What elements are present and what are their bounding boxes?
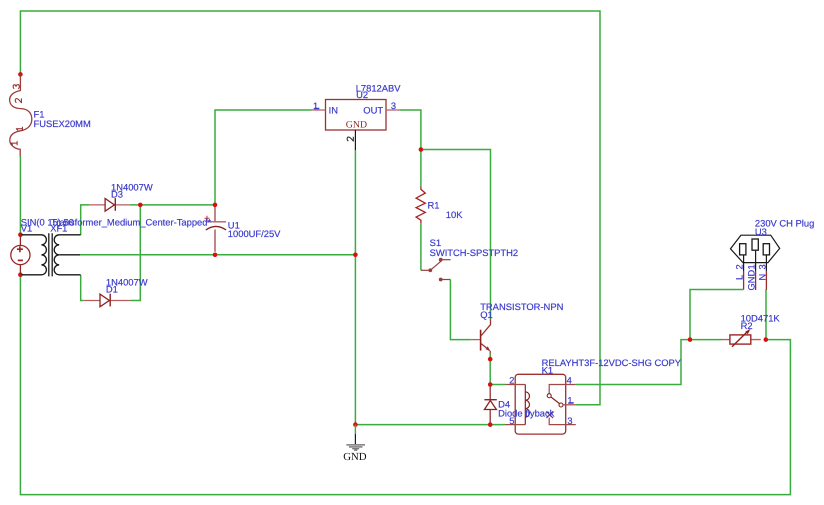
- secondary winding: [54, 235, 80, 275]
- node varistor right junction: [764, 337, 769, 342]
- svg-text:D3: D3: [111, 189, 123, 200]
- wire center tap to U2 GND net: [80, 254, 355, 256]
- varistor R2: [721, 329, 761, 347]
- svg-text:Diode flyback: Diode flyback: [498, 408, 555, 419]
- coil: [525, 385, 529, 425]
- pin blade L: [740, 244, 746, 255]
- svg-text:U2: U2: [356, 89, 368, 100]
- svg-text:1000UF/25V: 1000UF/25V: [228, 228, 281, 239]
- svg-text:5: 5: [509, 416, 514, 426]
- transistor Q1: [471, 320, 491, 354]
- wire D3 cathode to cap top to U2 IN: [130, 110, 312, 205]
- relay pin numbers: [509, 375, 573, 425]
- diode D1: [83, 294, 130, 307]
- svg-text:R1: R1: [428, 200, 440, 211]
- primary winding: [22, 235, 47, 275]
- svg-text:U3: U3: [755, 226, 767, 237]
- wire D3 junction down to D1 cathode: [131, 205, 141, 301]
- svg-text:GND: GND: [746, 270, 756, 291]
- svg-text:GND: GND: [346, 119, 367, 130]
- svg-text:Transformer_Medium_Center-Tapp: Transformer_Medium_Center-Tapped*: [51, 217, 211, 228]
- svg-text:XF1: XF1: [50, 223, 67, 234]
- svg-text:K1: K1: [542, 365, 553, 376]
- node cap bottom junction: [213, 253, 218, 258]
- node V1 plus terminal: [18, 232, 23, 237]
- pin blade GND: [752, 239, 758, 250]
- svg-text:R2: R2: [741, 320, 753, 331]
- plug U3 pin leads red: [744, 271, 767, 290]
- node varistor left junction: [688, 337, 693, 342]
- wire U2 OUT to junction, down to R1: [399, 110, 421, 186]
- svg-text:V1: V1: [21, 223, 32, 234]
- resistor R1: [416, 186, 425, 223]
- svg-text:2: 2: [735, 264, 745, 269]
- hexagon body: [731, 235, 780, 262]
- svg-text:L: L: [735, 275, 745, 280]
- svg-text:SWITCH-SPSTPTH2: SWITCH-SPSTPTH2: [430, 247, 519, 258]
- svg-text:1: 1: [746, 264, 756, 269]
- svg-text:GND: GND: [343, 451, 367, 463]
- pin 2 stub: [505, 384, 525, 386]
- svg-text:3: 3: [758, 264, 768, 269]
- pin blade N: [763, 244, 769, 255]
- node center tap / U2 gnd junction: [353, 253, 358, 258]
- fuse F1 pin numbers: [11, 85, 22, 146]
- node GND symbol junction: [353, 422, 358, 427]
- wire emitter net to relay pin2: [490, 384, 505, 386]
- svg-text:1: 1: [567, 396, 572, 406]
- wire fuse-top to top rail to relay pin1: [20, 11, 600, 405]
- svg-text:D1: D1: [106, 284, 118, 295]
- svg-text:Q1: Q1: [480, 309, 493, 320]
- wire plug L pin left and down to varistor left junction: [690, 290, 744, 340]
- wire relay pin4 to varistor left junction: [576, 340, 690, 385]
- U2 pin2 stub: [354, 130, 356, 150]
- svg-text:2: 2: [509, 375, 514, 385]
- capacitor U1: [205, 207, 227, 252]
- node D4 bottom junction: [488, 422, 493, 427]
- svg-text:4: 4: [567, 375, 572, 385]
- fuse F1: [10, 74, 32, 156]
- svg-text:3: 3: [567, 416, 572, 426]
- wire transformer secondary bottom to D1 anode: [81, 275, 84, 301]
- wire transformer secondary top to D3: [81, 205, 90, 235]
- node relay pin2 junction: [488, 382, 493, 387]
- pin 3 stub and NC mark: [549, 418, 576, 425]
- ground symbol GND: [343, 425, 367, 463]
- wire fuse bottom to V1 top: [19, 156, 21, 235]
- wire emitter down to GND net: [489, 354, 491, 385]
- pin leads black: [744, 250, 767, 271]
- diode D3: [89, 198, 130, 211]
- svg-text:3: 3: [391, 101, 396, 111]
- node U2 out junction: [419, 147, 424, 152]
- U2 pin 1 digit foot serif: [314, 108, 319, 110]
- wire junction right to transistor collector: [421, 150, 491, 320]
- regulator U2: [312, 100, 400, 151]
- svg-text:10K: 10K: [446, 209, 463, 220]
- wire plug N pin to varistor right junction: [765, 290, 767, 340]
- node fuse top junction: [18, 72, 23, 77]
- plug pin numbers (rotated): [735, 264, 768, 290]
- pin 4 stub and contact arm: [549, 385, 576, 394]
- node emitter junction: [488, 357, 493, 362]
- svg-text:RELAYHT3F-12VDC-SHG COPY: RELAYHT3F-12VDC-SHG COPY: [542, 357, 682, 368]
- diode D4 flyback: [484, 386, 496, 424]
- node cap top junction: [213, 203, 218, 208]
- core lines: [49, 233, 52, 276]
- pin 5 stub: [505, 424, 525, 426]
- svg-text:N: N: [758, 274, 768, 281]
- node D3 output junction: [138, 203, 143, 208]
- transformer XF1: [22, 233, 81, 276]
- switch S1: [421, 258, 451, 280]
- svg-text:1: 1: [313, 101, 318, 111]
- center tap: [59, 254, 80, 256]
- svg-text:IN: IN: [329, 105, 338, 116]
- wire GND net horizontal to relay pin5: [355, 424, 505, 426]
- wire R1 bottom to switch: [420, 223, 422, 270]
- wire switch lower contact to transistor base: [450, 280, 470, 340]
- plug U3: [731, 235, 780, 271]
- svg-text:OUT: OUT: [363, 105, 383, 116]
- U2 pin 2 number (rotated): [347, 137, 353, 141]
- source V1: [11, 235, 30, 275]
- wire U2 pin2 down to center tap and down to GND symbol junction: [354, 150, 356, 425]
- pin 1 stub: [563, 404, 576, 406]
- node V1 minus terminal: [18, 272, 23, 277]
- wire junction to varistor left stub: [690, 339, 721, 341]
- svg-text:FUSEX20MM: FUSEX20MM: [34, 118, 91, 129]
- relay K1: [505, 374, 576, 434]
- U2 pin numbers: [313, 101, 396, 111]
- wire V1 bottom, bottom rail, right rail to varistor: [20, 275, 790, 495]
